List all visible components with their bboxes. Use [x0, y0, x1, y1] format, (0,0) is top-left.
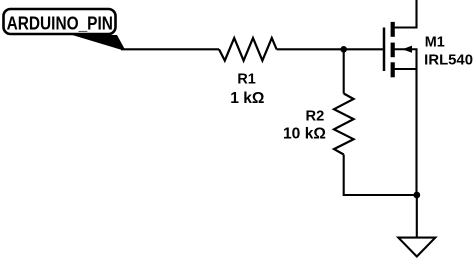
body stub with corner to source: [395, 49, 417, 69]
channel bar source segment: [391, 62, 395, 77]
transistor M1: [384, 0, 417, 195]
node: junction dot at source/ground: [413, 192, 420, 199]
svg-text:R2: R2: [306, 109, 325, 125]
svg-text:M1: M1: [425, 35, 445, 51]
net flag ARDUINO_PIN: [4, 9, 126, 50]
wire: junction down to R2: [343, 49, 345, 93]
svg-text:1 kΩ: 1 kΩ: [230, 90, 264, 107]
wire: flag to R1: [121, 48, 219, 50]
drain stub: [395, 0, 417, 28]
gate bar: [383, 28, 386, 72]
node: junction dot at gate wire / R2 branch: [340, 46, 347, 53]
svg-text:ARDUINO_PIN: ARDUINO_PIN: [7, 13, 113, 34]
body arrow: [402, 46, 412, 53]
svg-text:R1: R1: [237, 71, 255, 87]
svg-text:IRL540: IRL540: [424, 52, 473, 68]
flag tail: [71, 35, 125, 51]
resistor R1: [219, 38, 277, 61]
svg-text:10 kΩ: 10 kΩ: [283, 126, 326, 143]
wire: ground drop: [416, 195, 418, 238]
channel bar body segment: [391, 43, 395, 58]
flag box: [4, 9, 116, 34]
channel bar drain segment: [391, 22, 395, 37]
resistor R2: [334, 94, 354, 155]
wire: R1 to gate: [277, 48, 383, 50]
wire: R2 to bottom rail and over to source node: [344, 155, 417, 196]
ground: [398, 238, 435, 257]
source stub: [395, 69, 417, 195]
